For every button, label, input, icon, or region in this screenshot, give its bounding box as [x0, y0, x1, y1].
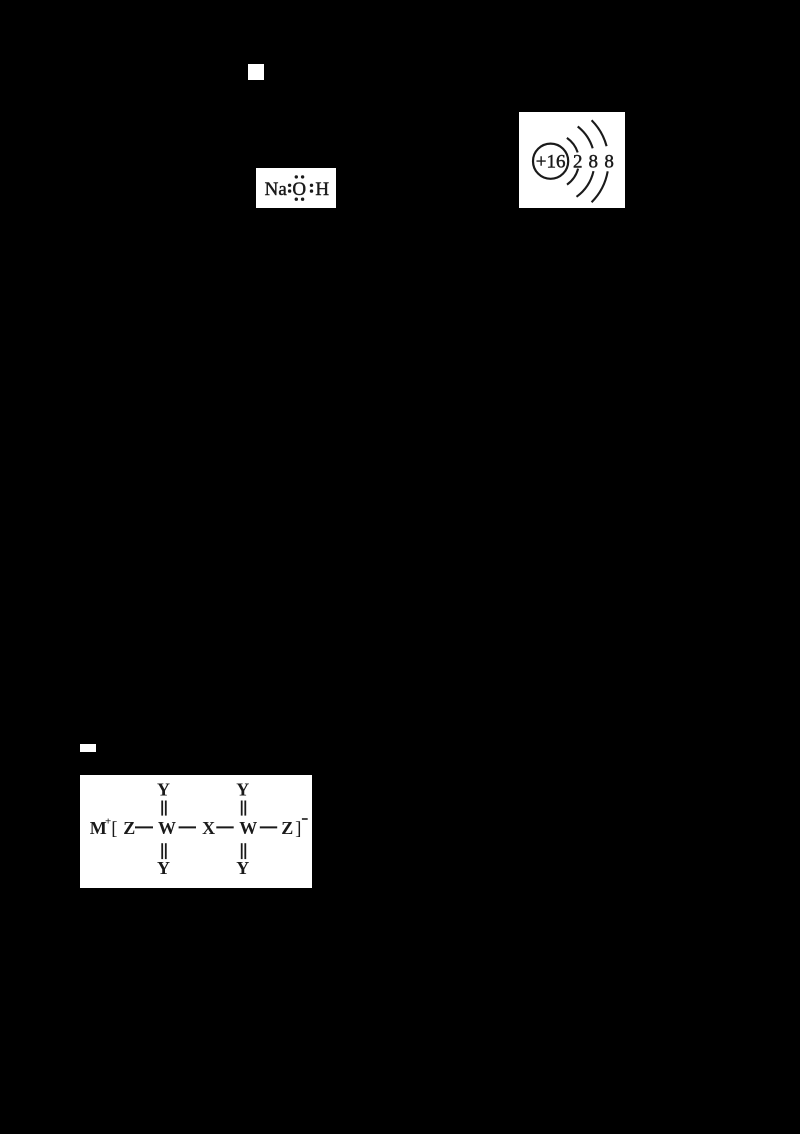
- svg-text:W: W: [239, 818, 257, 838]
- svg-text:Z: Z: [123, 818, 135, 838]
- anion structure box M+[Z-W(=Y)2-X-W(=Y)2-Z]-: [80, 775, 312, 888]
- svg-text:[: [: [111, 819, 117, 840]
- bond W-Z: [260, 826, 277, 828]
- bond W-X: [179, 826, 196, 828]
- svg-text:Y: Y: [236, 780, 249, 800]
- svg-text:Y: Y: [157, 780, 170, 800]
- shell arc 2 upper: [578, 127, 593, 149]
- svg-text:Z: Z: [281, 818, 293, 838]
- shell arc 1 upper: [567, 138, 578, 153]
- double bond W=Y lower-right: [241, 843, 243, 859]
- Lewis structure NaOH box: [256, 168, 336, 208]
- bonding pair colon between O and H: [310, 184, 313, 187]
- lone pair dots above O: [295, 175, 298, 178]
- bonding pair colon between Na and O: [288, 184, 291, 187]
- lone pair dots below O: [295, 198, 298, 201]
- svg-text:8: 8: [589, 152, 599, 173]
- svg-text:8: 8: [604, 152, 614, 173]
- shell arc 3 lower: [592, 171, 608, 202]
- svg-text:2: 2: [573, 152, 583, 173]
- svg-text:W: W: [158, 818, 176, 838]
- svg-text:+16: +16: [536, 152, 566, 173]
- svg-text:Y: Y: [157, 858, 170, 878]
- nucleus circle: [533, 144, 568, 179]
- svg-text:O: O: [292, 179, 306, 200]
- Bohr atomic structure diagram box (+16 | 2 8 8): [519, 112, 625, 208]
- bond X-W: [216, 826, 233, 828]
- double bond W=Y lower-left: [161, 843, 163, 859]
- small white answer rectangle (bottom): [80, 744, 96, 752]
- white answer square (top): [248, 64, 264, 80]
- svg-text:H: H: [315, 179, 329, 200]
- double bond Y=W upper-right: [241, 801, 243, 816]
- svg-text:Y: Y: [236, 858, 249, 878]
- svg-text:X: X: [202, 818, 215, 838]
- bond Z-W: [135, 826, 153, 828]
- svg-text:Na: Na: [265, 179, 288, 200]
- superscript minus: [302, 818, 308, 820]
- double bond Y=W upper-left: [161, 801, 163, 816]
- shell arc 2 lower: [577, 171, 594, 197]
- shell arc 1 lower: [567, 169, 578, 185]
- svg-text:]: ]: [295, 819, 301, 840]
- shell arc 3 upper: [592, 120, 607, 146]
